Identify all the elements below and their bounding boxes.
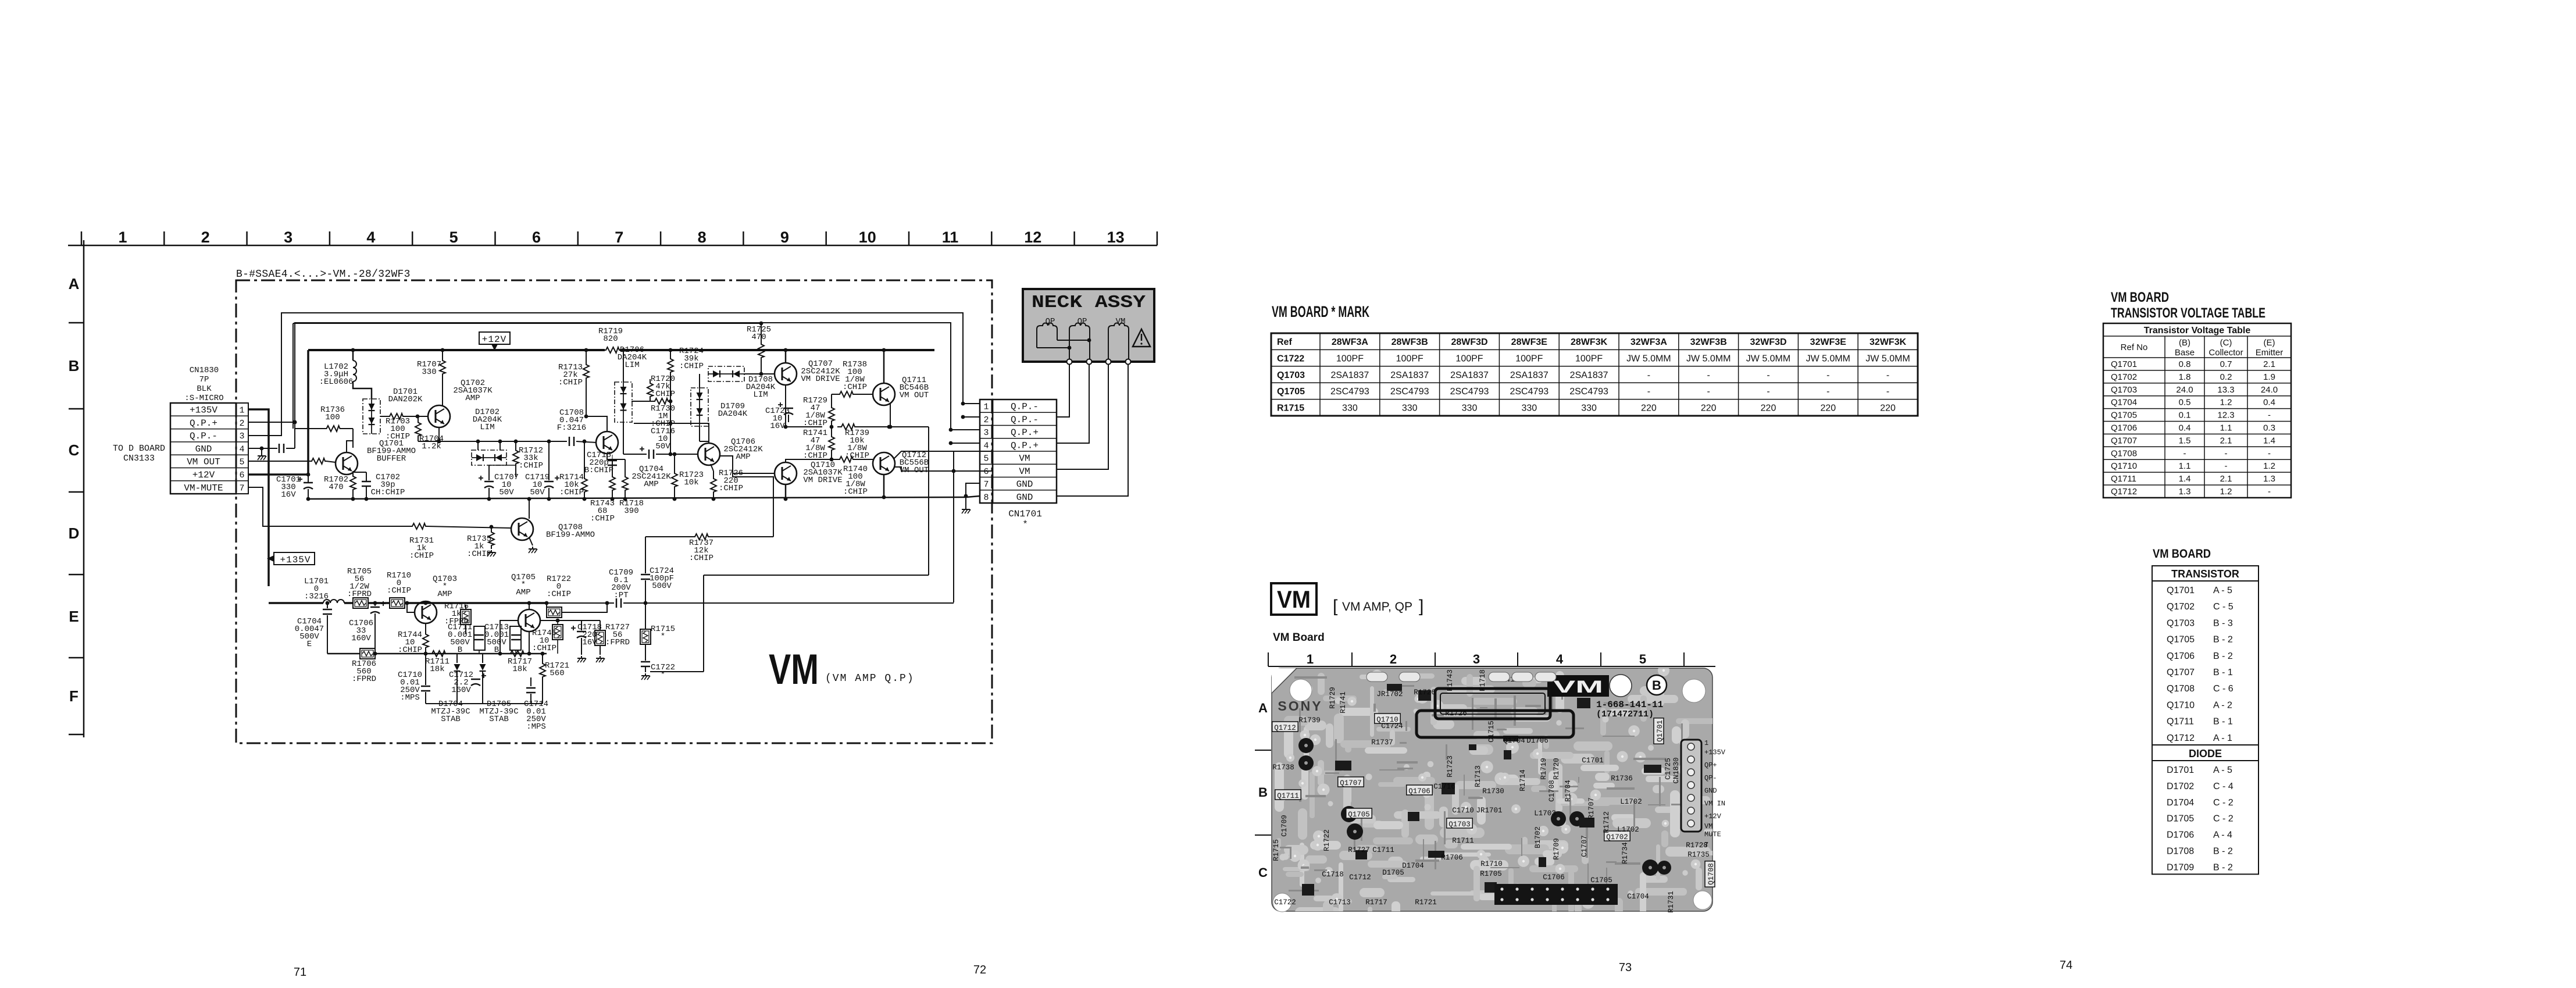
svg-text:Q1708: Q1708 xyxy=(2167,684,2195,694)
svg-text:820: 820 xyxy=(603,334,618,344)
svg-text:1.1: 1.1 xyxy=(2220,423,2232,433)
svg-text:R1707: R1707 xyxy=(1587,797,1596,819)
PCB mounting holes xyxy=(1290,679,1312,701)
svg-text:L1702: L1702 xyxy=(1617,826,1639,834)
wire VM OUT pin5 xyxy=(248,461,310,462)
svg-text:VM Board: VM Board xyxy=(1273,632,1325,644)
svg-text:+135V: +135V xyxy=(190,405,217,416)
svg-text:50V: 50V xyxy=(499,488,514,497)
svg-text:470: 470 xyxy=(329,483,343,492)
svg-text:Q1706: Q1706 xyxy=(2167,651,2195,661)
table transistor voltage xyxy=(2103,323,2291,498)
PCB top slots xyxy=(1367,672,1387,682)
+12V label box xyxy=(479,332,510,344)
svg-text::CHIP: :CHIP xyxy=(547,590,571,599)
wire Q1710 collector xyxy=(785,484,787,499)
table VM BOARD location xyxy=(2152,566,2259,874)
grid column ticks xyxy=(81,231,83,245)
svg-text:TRANSISTOR: TRANSISTOR xyxy=(2171,568,2239,580)
svg-text:2SA1837: 2SA1837 xyxy=(1330,370,1369,380)
svg-text:AMP: AMP xyxy=(465,394,480,403)
svg-text:*: * xyxy=(661,632,665,641)
svg-text:-: - xyxy=(1826,387,1829,397)
svg-text:C - 6: C - 6 xyxy=(2213,684,2234,694)
+135V label box xyxy=(274,552,315,565)
NECK ASSY pins xyxy=(1067,359,1072,365)
svg-text:330: 330 xyxy=(1402,404,1418,413)
svg-text:18k: 18k xyxy=(430,665,444,674)
svg-text:B: B xyxy=(69,357,80,374)
svg-text:32WF3B: 32WF3B xyxy=(1690,337,1727,347)
resistor R1706 boxed xyxy=(360,648,375,659)
svg-text:B: B xyxy=(494,645,499,655)
svg-text:Q1710: Q1710 xyxy=(2111,461,2137,471)
svg-text:2SA1837: 2SA1837 xyxy=(1510,370,1549,380)
svg-text:BUFFER: BUFFER xyxy=(377,454,406,463)
svg-text:C - 2: C - 2 xyxy=(2213,814,2234,824)
svg-text:330: 330 xyxy=(1462,404,1478,413)
svg-text:C1705: C1705 xyxy=(1590,876,1612,884)
svg-text:VM DRIVE: VM DRIVE xyxy=(801,374,840,384)
svg-text:AMP: AMP xyxy=(516,588,530,597)
svg-text:C - 5: C - 5 xyxy=(2213,602,2234,612)
svg-text:-: - xyxy=(1886,370,1889,380)
svg-text:CH:CHIP: CH:CHIP xyxy=(371,488,405,497)
svg-text:50V: 50V xyxy=(530,488,545,497)
resistor R1743 xyxy=(609,468,615,499)
svg-text:5: 5 xyxy=(983,454,989,464)
svg-text:13.3: 13.3 xyxy=(2217,385,2234,395)
svg-text:L1702: L1702 xyxy=(1620,798,1642,806)
svg-text:AMP: AMP xyxy=(644,480,658,489)
svg-text:B1702: B1702 xyxy=(1534,826,1542,848)
wire Q1710 emitter xyxy=(786,459,832,462)
svg-text:STAB: STAB xyxy=(441,715,461,724)
svg-text:5: 5 xyxy=(239,458,244,468)
bottom ground rail xyxy=(308,496,980,499)
+135V power rail xyxy=(269,602,323,604)
svg-text:BLK: BLK xyxy=(197,384,212,394)
svg-text:R1735: R1735 xyxy=(1687,851,1710,859)
svg-text:28WF3B: 28WF3B xyxy=(1392,337,1428,347)
svg-text:C1725: C1725 xyxy=(1664,758,1672,780)
svg-text::CHIP: :CHIP xyxy=(590,514,615,523)
svg-text:GND: GND xyxy=(1704,787,1717,795)
svg-text:B - 2: B - 2 xyxy=(2213,847,2233,857)
svg-text:R1730: R1730 xyxy=(1482,787,1504,796)
svg-text:18k: 18k xyxy=(512,665,527,674)
svg-text:1: 1 xyxy=(983,402,989,412)
svg-text:C1709: C1709 xyxy=(1280,815,1289,837)
svg-text::CHIP: :CHIP xyxy=(532,644,556,653)
svg-text:Q1701: Q1701 xyxy=(1656,720,1664,742)
svg-text:VM-MUTE: VM-MUTE xyxy=(184,483,223,493)
svg-text:1: 1 xyxy=(239,406,244,416)
svg-text:JW 5.0MM: JW 5.0MM xyxy=(1626,354,1671,363)
svg-text:R1731: R1731 xyxy=(1667,891,1675,913)
svg-text:0.5: 0.5 xyxy=(2179,398,2191,408)
svg-text:C1704: C1704 xyxy=(1627,893,1649,901)
svg-text:330: 330 xyxy=(1521,404,1537,413)
svg-text:C1724: C1724 xyxy=(1381,722,1403,730)
svg-text:C1706: C1706 xyxy=(1543,873,1565,882)
svg-text:C - 4: C - 4 xyxy=(2213,782,2234,791)
svg-text:2: 2 xyxy=(201,229,210,246)
svg-text:+12V: +12V xyxy=(482,334,506,345)
svg-text:B - 2: B - 2 xyxy=(2213,651,2233,661)
svg-text:1.2k: 1.2k xyxy=(422,442,441,451)
svg-text:R1738: R1738 xyxy=(1272,764,1294,772)
svg-text:+12V: +12V xyxy=(1704,812,1722,821)
svg-text:50V: 50V xyxy=(655,442,670,451)
svg-text:0.4: 0.4 xyxy=(2263,398,2275,408)
svg-text:*: * xyxy=(1022,519,1028,530)
svg-text:A: A xyxy=(69,275,80,293)
svg-text:C1710: C1710 xyxy=(1452,807,1474,815)
wire Q1705 base xyxy=(500,620,518,654)
svg-text:4: 4 xyxy=(1556,652,1564,666)
svg-text:220: 220 xyxy=(1641,404,1657,413)
svg-text:Q1704: Q1704 xyxy=(1503,737,1525,745)
svg-text:R1709: R1709 xyxy=(1553,838,1561,860)
svg-text:10: 10 xyxy=(859,229,876,246)
signal wire mid xyxy=(418,441,567,442)
svg-text::S-MICRO: :S-MICRO xyxy=(184,394,223,403)
svg-text:CN1830: CN1830 xyxy=(190,366,219,375)
svg-text:VM BOARD: VM BOARD xyxy=(2153,547,2211,561)
svg-text:16V: 16V xyxy=(770,422,785,431)
svg-text:2.1: 2.1 xyxy=(2220,436,2232,445)
svg-text:B - 1: B - 1 xyxy=(2213,668,2233,677)
transistor Q1707 2SC2412K VM drive xyxy=(775,363,797,385)
svg-text:R1720: R1720 xyxy=(1553,758,1561,780)
svg-text:10k: 10k xyxy=(684,478,698,487)
svg-text::MPS: :MPS xyxy=(400,693,420,702)
deflection coil QP2 xyxy=(1069,323,1090,361)
svg-text:72: 72 xyxy=(973,964,986,976)
table VM BOARD MARK xyxy=(1271,333,1918,416)
svg-text:QP-: QP- xyxy=(1704,774,1717,782)
svg-text:R1715: R1715 xyxy=(1277,404,1304,413)
svg-text:R1710: R1710 xyxy=(1480,860,1503,868)
svg-text:C1718: C1718 xyxy=(1322,871,1344,879)
svg-text:JW 5.0MM: JW 5.0MM xyxy=(1686,354,1731,363)
svg-text:C1701: C1701 xyxy=(1582,757,1604,765)
svg-text:R1711: R1711 xyxy=(1452,837,1474,845)
svg-text::CHIP: :CHIP xyxy=(409,551,434,561)
wire QP+ to pin4 xyxy=(951,443,980,444)
svg-text:2SC4793: 2SC4793 xyxy=(1510,387,1549,397)
svg-text:2SA1837: 2SA1837 xyxy=(1450,370,1489,380)
svg-text::CHIP: :CHIP xyxy=(519,461,543,470)
wire GND pin4 xyxy=(248,448,277,449)
resistor R1719 in rail xyxy=(602,347,622,353)
svg-text:Q1706: Q1706 xyxy=(2111,423,2137,433)
transistor Q1711 BC546B VM OUT xyxy=(873,383,895,405)
svg-text:390: 390 xyxy=(624,507,638,516)
svg-text:CN1701: CN1701 xyxy=(1008,509,1042,519)
svg-text:Q1702: Q1702 xyxy=(2167,602,2195,612)
svg-text:Q1707: Q1707 xyxy=(1340,779,1362,787)
svg-text:5: 5 xyxy=(449,229,458,246)
grid border left line xyxy=(83,240,85,737)
svg-text:A - 5: A - 5 xyxy=(2213,586,2232,595)
svg-text:R1713: R1713 xyxy=(1474,765,1482,787)
svg-text:470: 470 xyxy=(751,333,766,342)
svg-text:Emitter: Emitter xyxy=(2256,348,2284,358)
wire VM sense down xyxy=(953,451,954,602)
svg-text:Q1705: Q1705 xyxy=(2111,411,2137,420)
svg-text:C1707: C1707 xyxy=(1580,835,1589,857)
svg-text:500V: 500V xyxy=(652,582,672,591)
svg-text:9: 9 xyxy=(780,229,789,246)
svg-text:71: 71 xyxy=(294,966,306,979)
svg-text:13: 13 xyxy=(1107,229,1125,246)
svg-text:5: 5 xyxy=(1639,652,1646,666)
grid row ticks xyxy=(69,322,84,324)
svg-text:Q.P.-: Q.P.- xyxy=(1011,415,1039,425)
svg-text:100: 100 xyxy=(325,413,340,422)
svg-text:SONY: SONY xyxy=(1278,698,1322,714)
svg-text:Q1710: Q1710 xyxy=(2167,700,2195,710)
svg-text:Q1701: Q1701 xyxy=(2111,359,2137,369)
+12V power rail xyxy=(308,349,605,351)
svg-text:C1711: C1711 xyxy=(1372,846,1394,854)
svg-text:Q1705: Q1705 xyxy=(1277,387,1305,397)
svg-text:A: A xyxy=(1258,701,1268,715)
svg-text::CHIP: :CHIP xyxy=(387,586,411,595)
svg-text:JR1702: JR1702 xyxy=(1376,690,1403,698)
svg-text:-: - xyxy=(1886,387,1889,397)
PCB board photo xyxy=(1272,665,1726,939)
svg-text:VM: VM xyxy=(769,646,819,693)
svg-text:+135V: +135V xyxy=(1704,748,1726,757)
svg-text:D1709: D1709 xyxy=(2167,862,2194,872)
svg-text::CHIP: :CHIP xyxy=(559,488,584,497)
svg-text:JW 5.0MM: JW 5.0MM xyxy=(1746,354,1790,363)
svg-text:1-668-141-11: 1-668-141-11 xyxy=(1596,700,1663,710)
svg-text:C: C xyxy=(69,441,80,459)
svg-text:TO D BOARD: TO D BOARD xyxy=(113,444,165,454)
svg-text:Q1705: Q1705 xyxy=(2167,635,2195,645)
svg-text:LIM: LIM xyxy=(625,361,639,370)
emitter junction wires xyxy=(786,407,822,427)
svg-text:[: [ xyxy=(1333,597,1338,616)
svg-text:B - 2: B - 2 xyxy=(2213,862,2233,872)
svg-text:1.4: 1.4 xyxy=(2179,474,2191,484)
svg-text:Q.P.-: Q.P.- xyxy=(1011,402,1039,412)
svg-text:(VM AMP Q.P): (VM AMP Q.P) xyxy=(825,673,915,684)
+135V feed vertical xyxy=(248,409,269,586)
wire VM output rows xyxy=(894,451,993,459)
wire QP- feedback top xyxy=(248,313,980,436)
svg-text:-: - xyxy=(1647,370,1650,380)
svg-text:2SC4793: 2SC4793 xyxy=(1569,387,1608,397)
svg-text:B - 3: B - 3 xyxy=(2213,618,2233,628)
wire NECK pin4 to CN1701 pin8 xyxy=(1057,364,1128,496)
svg-text:(E): (E) xyxy=(2264,338,2275,348)
svg-text:24.0: 24.0 xyxy=(2261,385,2278,395)
svg-text:0.4: 0.4 xyxy=(2179,423,2191,433)
svg-text:6: 6 xyxy=(532,229,541,246)
svg-text:JR1701: JR1701 xyxy=(1476,807,1502,815)
svg-text:VM IN: VM IN xyxy=(1704,800,1725,808)
svg-text:4: 4 xyxy=(239,444,244,454)
svg-text:GND: GND xyxy=(1016,492,1033,502)
zener D1705 xyxy=(482,654,483,663)
svg-text:1: 1 xyxy=(1704,739,1708,747)
svg-text:Collector: Collector xyxy=(2208,348,2243,358)
svg-text:0.2: 0.2 xyxy=(2220,372,2232,382)
resistor R1701 xyxy=(310,458,326,464)
connector CN1701 pin number boxes xyxy=(980,400,993,503)
svg-text:24.0: 24.0 xyxy=(2176,385,2193,395)
svg-text:1.2: 1.2 xyxy=(2220,487,2232,497)
PCB white circle xyxy=(1610,675,1632,697)
svg-text:R1719: R1719 xyxy=(1540,758,1548,780)
svg-text:R1706: R1706 xyxy=(1441,854,1463,862)
svg-text:-: - xyxy=(1707,370,1710,380)
svg-text:VM: VM xyxy=(1019,466,1030,477)
svg-text:330: 330 xyxy=(1342,404,1358,413)
svg-text:R1727: R1727 xyxy=(1348,846,1370,854)
diode pair D1708 input xyxy=(708,366,744,381)
svg-text:8: 8 xyxy=(983,493,989,502)
svg-text:-: - xyxy=(2225,448,2228,458)
svg-text::CHIP: :CHIP xyxy=(558,378,583,387)
svg-text:-: - xyxy=(2268,448,2271,458)
svg-text:GND: GND xyxy=(1016,479,1033,490)
VM block logo xyxy=(1271,583,1316,615)
schematic dash-dot frame xyxy=(236,280,992,743)
connector CN1701 body xyxy=(993,400,1057,503)
grid border top line xyxy=(68,245,1157,247)
svg-text:220: 220 xyxy=(1701,404,1717,413)
svg-text:R1715: R1715 xyxy=(1272,839,1280,861)
svg-text:0.1: 0.1 xyxy=(2179,411,2191,420)
svg-text:73: 73 xyxy=(1619,961,1632,974)
wire Q1710 base xyxy=(720,456,775,473)
svg-text:D1706: D1706 xyxy=(2167,830,2194,840)
deflection coil VM xyxy=(1108,323,1129,361)
svg-text:A - 2: A - 2 xyxy=(2213,700,2232,710)
svg-text:B-#SSAE4.<...>-VM.-28/32WF3: B-#SSAE4.<...>-VM.-28/32WF3 xyxy=(236,269,411,280)
PCB CN1830 connector xyxy=(1681,740,1701,832)
svg-text:D: D xyxy=(69,525,80,542)
svg-text::FPRD: :FPRD xyxy=(605,638,630,647)
deflection coil QP1 xyxy=(1037,323,1057,348)
svg-text:Q1702: Q1702 xyxy=(2111,372,2137,382)
PCB component labels xyxy=(1272,722,1298,732)
svg-text:R1737: R1737 xyxy=(1371,739,1393,747)
diode D1701 DAN202K xyxy=(363,399,380,434)
svg-text:D1701: D1701 xyxy=(2167,765,2194,775)
svg-text:VM DRIVE: VM DRIVE xyxy=(803,476,842,485)
svg-text::CHIP: :CHIP xyxy=(651,390,675,399)
svg-text:(C): (C) xyxy=(2220,338,2232,348)
svg-text:1.2: 1.2 xyxy=(2220,398,2232,408)
svg-text:B: B xyxy=(458,645,462,655)
svg-text:CN3133: CN3133 xyxy=(123,454,155,463)
PCB corner chamfer xyxy=(1272,668,1297,693)
svg-text:BF199-AMMO: BF199-AMMO xyxy=(546,530,595,540)
svg-text:B: B xyxy=(1652,678,1661,693)
svg-text:Q1712: Q1712 xyxy=(2111,487,2137,497)
svg-text:2: 2 xyxy=(1390,652,1397,666)
svg-text:A - 5: A - 5 xyxy=(2213,765,2232,775)
svg-text:R1726: R1726 xyxy=(1445,709,1467,718)
svg-text:VM: VM xyxy=(1019,454,1030,464)
svg-text:VM OUT: VM OUT xyxy=(900,391,929,400)
svg-text:TRANSISTOR VOLTAGE TABLE: TRANSISTOR VOLTAGE TABLE xyxy=(2111,305,2265,321)
wire top distribution xyxy=(293,323,761,324)
svg-text:1.4: 1.4 xyxy=(2263,436,2275,445)
svg-text:Q1703: Q1703 xyxy=(1448,821,1471,829)
svg-text:(B): (B) xyxy=(2179,338,2190,348)
svg-text:Q1701: Q1701 xyxy=(2167,586,2195,595)
transistor Q1712 BC556B VM OUT xyxy=(873,452,895,475)
svg-text:Q1703: Q1703 xyxy=(1277,370,1305,380)
svg-text:R1722: R1722 xyxy=(1323,829,1331,851)
svg-text:28WF3D: 28WF3D xyxy=(1451,337,1487,347)
svg-text:Q1704: Q1704 xyxy=(2111,398,2137,408)
svg-text:L1703: L1703 xyxy=(1534,809,1556,818)
svg-text:A - 4: A - 4 xyxy=(2213,830,2232,840)
svg-text:32WF3K: 32WF3K xyxy=(1869,337,1907,347)
svg-text:R1714: R1714 xyxy=(1519,769,1527,791)
wire output sense loop xyxy=(704,575,929,576)
PCB circled B xyxy=(1647,675,1667,695)
svg-text:C: C xyxy=(1258,865,1268,880)
svg-text:-: - xyxy=(2268,487,2271,497)
svg-text:Q.P.-: Q.P.- xyxy=(190,431,217,441)
transistor Q1701 BF199-AMMO buffer xyxy=(336,452,358,475)
svg-text:Q.P.+: Q.P.+ xyxy=(190,418,217,429)
warning triangle xyxy=(1133,329,1150,347)
svg-text:C1715: C1715 xyxy=(1487,721,1496,743)
svg-text:1.2: 1.2 xyxy=(2263,461,2275,471)
svg-text:1.1: 1.1 xyxy=(2179,461,2191,471)
svg-text:D1704: D1704 xyxy=(2167,798,2194,808)
svg-text:JW 5.0MM: JW 5.0MM xyxy=(1865,354,1910,363)
svg-text:NECK ASSY: NECK ASSY xyxy=(1032,293,1146,313)
svg-text:Base: Base xyxy=(2175,348,2195,358)
svg-text:AMP: AMP xyxy=(736,452,750,462)
wire NECK pin2 to CN1701 pin4 xyxy=(1057,364,1089,443)
svg-text:6: 6 xyxy=(983,467,989,477)
svg-text:160V: 160V xyxy=(451,686,471,695)
svg-text:R1718: R1718 xyxy=(1479,669,1487,691)
svg-text:LIM: LIM xyxy=(480,423,494,432)
+12V pin feed xyxy=(248,350,308,475)
svg-text:R1721: R1721 xyxy=(1415,898,1437,907)
svg-text:Transistor Voltage Table: Transistor Voltage Table xyxy=(2144,326,2251,336)
svg-text:LIM: LIM xyxy=(753,390,768,400)
svg-text:-: - xyxy=(2183,448,2186,458)
svg-text:C - 2: C - 2 xyxy=(2213,798,2234,808)
svg-text:B: B xyxy=(1258,785,1268,800)
svg-text:32WF3E: 32WF3E xyxy=(1810,337,1847,347)
svg-text:2.1: 2.1 xyxy=(2263,359,2275,369)
svg-text:2.1: 2.1 xyxy=(2220,474,2232,484)
svg-text:12.3: 12.3 xyxy=(2217,411,2234,420)
NECK ASSY block xyxy=(1023,289,1154,362)
svg-text:-: - xyxy=(1767,387,1769,397)
PCB connector outline 2 xyxy=(1417,711,1574,737)
svg-text:CN1830: CN1830 xyxy=(1672,757,1681,783)
svg-text:DA204K: DA204K xyxy=(718,409,748,419)
svg-text:C1722: C1722 xyxy=(1274,898,1296,907)
